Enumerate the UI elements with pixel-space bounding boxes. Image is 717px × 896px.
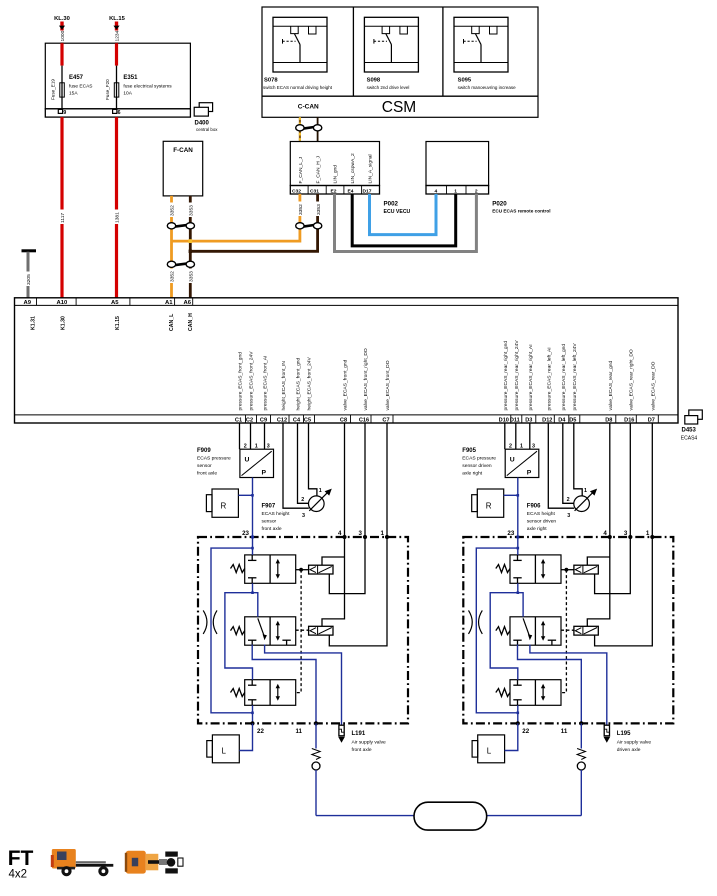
wire ECU pin to height sensor F906 pin 2 [563,423,574,503]
junction orange F-CAN low [188,239,192,243]
truck icon side view [51,849,114,876]
svg-text:E457: E457 [69,75,84,81]
svg-text:P: P [527,470,532,477]
wire ECU pin to height sensor F907 pin 1 [309,423,317,496]
junction brown F-CAN high [189,250,192,253]
wire ECU pin to pressure sensor F905 pin 2 [504,423,506,449]
svg-text:22: 22 [522,728,529,735]
svg-text:D12: D12 [542,417,552,423]
svg-text:C7: C7 [382,417,389,423]
svg-text:1117: 1117 [60,213,66,223]
wire pin 1 to solenoid Y2 low side [595,537,653,646]
wire 3352 (orange F-CAN low, F-CAN box down to ECU A1) [168,196,175,298]
wire 3205 (ground to ECU A9) [25,252,32,298]
svg-text:2: 2 [509,443,512,449]
dashed link valve V2 to solenoid Y2 [561,629,574,631]
svg-text:A10: A10 [57,300,69,306]
wire red inside fuse box to fuse E351 [115,43,118,83]
wire sensor F905 to R and valve pin 23 (blue) [504,478,519,538]
ECU pin C8 (valve_ECAS_front_gnd) [340,359,351,423]
svg-text:valve_ECAS_rear_DO: valve_ECAS_rear_DO [651,361,657,410]
blue wire pin 22 to L box [239,723,252,750]
svg-text:CAN_L: CAN_L [169,313,175,331]
spring of valve V3 [231,689,245,697]
svg-text:F909: F909 [197,448,211,454]
pressure sensor F909 (U/P box) [240,449,274,477]
svg-text:22: 22 [257,728,264,735]
blue wire valve V3 to pin 22 [517,705,520,723]
wire ECU pin to pressure sensor F909 pin 2 [239,423,241,449]
pilot valve V1 (top, pneumatic 2/2) [510,555,561,583]
ECU pin A1 [165,300,175,331]
wire 1000 (KL.30 red feed into fuse box) [59,22,66,44]
svg-text:E4: E4 [348,188,354,194]
valve block pin labels 23 4 3 1 [507,530,649,537]
ECU P020 (ECAS remote control) box [426,142,489,195]
main valve V2 (middle, 3/2 way) [510,617,561,645]
blue wire valve V3 to pin 22 [251,705,254,723]
wire LIN_A_signal (blue U, P002 D17 to P020 pin4) [370,194,437,235]
spring of valve V3 [496,689,510,697]
svg-text:switch manoeuvring increase: switch manoeuvring increase [458,85,517,90]
svg-text:pressure_ECAS_rear_left_gnd: pressure_ECAS_rear_left_gnd [561,344,567,411]
svg-text:6: 6 [118,110,121,116]
svg-text:D8: D8 [605,417,612,423]
svg-text:Fuse_F20: Fuse_F20 [105,79,110,100]
pin D9 of fuse box [58,109,66,115]
wire sensor F909 to R and valve pin 23 (blue) [238,478,253,538]
svg-text:D3: D3 [525,417,532,423]
pilot dashed line (vertical) [296,570,301,693]
fuse E457 symbol [60,83,65,109]
wire ECU to valve block pin 3 [364,423,366,537]
svg-text:height_ECAS_front_gnd: height_ECAS_front_gnd [296,357,302,410]
main valve V2 (middle, 3/2 way) [245,617,296,645]
wire red inside fuse box to fuse E457 [60,43,63,83]
svg-text:23: 23 [242,530,249,537]
svg-text:10A: 10A [123,91,132,97]
svg-text:E2: E2 [331,188,337,194]
svg-text:F907: F907 [262,504,276,510]
ECU ECAS main box [15,298,679,423]
P002 signal name LIN_A_signal [368,154,374,183]
svg-text:11: 11 [561,728,568,735]
switch S095 (manoeuvring increase) [454,17,516,90]
height sensor F906 (circle with arrow) [574,489,597,512]
svg-text:F-CAN: F-CAN [173,147,193,154]
ECU pin D8 (valve_ECAS_rear_gnd) [605,360,616,423]
pressure sensor F905 (U/P box) [505,449,539,477]
label L191 [352,731,387,753]
svg-text:central box: central box [196,127,218,132]
svg-text:A6: A6 [184,300,192,306]
junction dots pins 22 and 11 [516,721,584,725]
twisted pair symbol (C-CAN at CSM) [296,125,322,131]
svg-text:C1: C1 [235,417,242,423]
wire ECU pin to pressure sensor F905 pin 1 [515,423,517,449]
wire 1117 (red, fuse D9 to ECU A10) [59,117,66,298]
svg-text:valve_ECAS_front_gnd: valve_ECAS_front_gnd [343,359,349,410]
legend FT 4x2 [8,847,34,881]
wire pin 3 to solenoid Y1 low side [329,537,365,594]
svg-text:1234: 1234 [115,30,121,41]
ECU pin C16 (valve_ECAS_front_right_DO) [359,348,371,423]
D400 central box connector icon [194,103,218,132]
svg-text:CAN_H: CAN_H [188,313,194,331]
svg-text:4x2: 4x2 [9,869,28,881]
svg-text:Air supply valve: Air supply valve [352,740,387,746]
svg-text:F_CAN_L_J: F_CAN_L_J [298,156,304,183]
svg-text:3: 3 [267,443,270,449]
svg-text:pressure_ECAS_rear_right_AI: pressure_ECAS_rear_right_AI [528,344,534,410]
ECU pin C7 (valve_ECAS_front_DO) [382,360,393,423]
svg-text:LIN_A_signal: LIN_A_signal [368,154,374,183]
ECU pin A6 [184,300,195,331]
svg-text:3353: 3353 [189,271,195,282]
pin numbers of F905 [509,443,535,449]
svg-text:2: 2 [567,497,570,503]
wire ECU pin to height sensor F906 pin 1 [574,423,582,496]
twisted pair symbol (below P002) [296,223,322,229]
svg-text:axle right: axle right [527,526,547,532]
net C-CAN label [298,104,319,111]
spring of valve V1 [496,565,510,573]
ECU pin C12 (height_ECAS_front_IN) [277,361,289,424]
label F907 [262,504,291,533]
svg-text:ECAS4: ECAS4 [681,436,698,442]
ECU pin D10 (pressure_ECAS_rear_right_gnd) [499,341,511,424]
svg-text:sensor: sensor [262,519,277,525]
svg-text:C2: C2 [246,417,253,423]
wire 3352 branch (orange from P002 C32) [172,194,305,241]
P002 signal name LIN_cspwA_2 [350,153,356,183]
svg-text:L191: L191 [352,731,366,737]
svg-text:sensor driven: sensor driven [527,519,557,525]
solenoid Y2 of valve V2 [309,626,333,635]
ECU pin A9 [24,300,37,330]
svg-text:pressure_ECAS_front_AI: pressure_ECAS_front_AI [263,356,269,411]
svg-text:C12: C12 [277,417,287,423]
D453 ECAS4 connector icon [681,410,703,442]
blue wire pin 22 to L box [505,723,518,750]
blue wire valve V1 to valve V2 [251,583,258,617]
height sensor F907 (circle with arrow) [309,489,332,512]
label F909 [197,448,231,477]
svg-text:2: 2 [244,443,247,449]
fuse E457 labels [50,75,92,100]
resistor box R (driven axle) [472,489,504,517]
wire ECU pin to pressure sensor F909 pin 1 [250,423,252,449]
lift axle box L (driven axle) [472,735,505,763]
wire LIN supply (black U, P002 E4 to P020 pin1) [352,194,456,246]
wire 3353 branch (brown from P002 C31) [190,194,321,251]
svg-text:3: 3 [302,513,305,519]
P002 reference label [384,201,411,216]
spring of valve V1 [231,565,245,573]
ECU pin C5 (height_ECAS_front_24V) [304,356,315,423]
wire pin 3 to solenoid Y1 low side [595,537,631,594]
svg-text:sensor: sensor [197,463,212,469]
wire pin 4 to solenoid Y1/Y2 high side [587,537,610,626]
wire 1234 (KL.15 red feed into fuse box) [113,22,120,44]
svg-text:D17: D17 [363,188,372,194]
dashed link valve V2 to solenoid Y2 [296,629,309,631]
pin D6 of fuse box [113,109,121,115]
wire 1381 (red, fuse D6 to ECU A5) [113,117,120,298]
svg-text:E351: E351 [123,75,138,81]
svg-text:U: U [510,457,515,464]
svg-text:switch 2nd drive level: switch 2nd drive level [367,85,410,90]
svg-text:ECAS pressure: ECAS pressure [462,456,496,462]
svg-text:D400: D400 [195,121,210,127]
svg-text:9: 9 [63,110,66,116]
svg-text:C4: C4 [293,417,301,423]
svg-text:1: 1 [584,488,587,494]
wire ECU to valve block pin 1 [386,423,388,537]
svg-text:valve_ECAS_rear_right_DO: valve_ECAS_rear_right_DO [629,349,635,410]
svg-text:3205: 3205 [26,274,32,285]
svg-text:K1.15: K1.15 [115,316,121,330]
P002 pin C31 label [310,188,319,194]
fuse E351 labels [105,75,172,100]
svg-text:KL.30: KL.30 [54,16,70,22]
blue wire left bypass loop [211,548,253,713]
svg-text:3: 3 [532,443,535,449]
ECU pin C1 (pressure_ECAS_front_gnd) [235,352,246,424]
svg-text:ECAS pressure: ECAS pressure [197,456,231,462]
F-CAN node box [163,141,203,196]
blue wire valve V2 to air supply valve [530,645,607,726]
ECU pin D3 (pressure_ECAS_rear_right_AI) [525,344,536,423]
wire ECU pin to height sensor F906 pin 3 [548,423,574,508]
solenoid Y2 of valve V2 [574,626,598,635]
P002 pin E2 label [331,188,337,194]
valve block assembly (driven axle) dash-dot border [463,537,673,723]
svg-text:fuse electrical systems: fuse electrical systems [123,84,172,90]
solenoid Y1 of valve V1 [574,565,598,574]
svg-text:4: 4 [435,188,438,194]
valve block pin labels 22 and 11 [257,728,303,735]
svg-text:1: 1 [381,530,385,537]
svg-text:2: 2 [475,188,478,194]
svg-text:front axle: front axle [197,471,217,477]
svg-text:R: R [221,502,227,511]
svg-text:CSM: CSM [382,99,416,116]
svg-text:1381: 1381 [115,212,121,223]
fuse box (central electric unit) outline [45,43,190,117]
valve V3 (bottom, pneumatic 2/2) [510,680,561,706]
svg-text:height_ECAS_front_24V: height_ECAS_front_24V [307,356,313,410]
P002 pin C32 label [292,188,301,194]
svg-text:valve_ECAS_front_right_DO: valve_ECAS_front_right_DO [363,348,369,410]
blue wire mid loop to valve V3 [225,593,253,680]
svg-text:D10: D10 [499,417,509,423]
ECU P002 (VECU) box [290,142,379,195]
svg-text:C31: C31 [310,188,319,194]
twisted pair symbol (F-CAN upper) [167,223,194,229]
wire C-CAN low (orange) CSM to P002 [299,117,301,141]
ECU pin C4 (height_ECAS_front_gnd) [293,357,304,423]
svg-text:4: 4 [338,530,342,537]
svg-text:pressure_ECAS_front_24V: pressure_ECAS_front_24V [249,351,255,411]
wire ECU pin to height sensor F907 pin 2 [298,423,309,503]
svg-text:2: 2 [301,497,304,503]
svg-text:C5: C5 [304,417,311,423]
ECU pin D4 (pressure_ECAS_rear_left_gnd) [558,344,569,424]
wire ECU to valve block pin 4 [609,423,611,537]
lift axle box L (front axle) [207,735,239,763]
wire pin 1 to solenoid Y2 low side [329,537,387,646]
svg-text:F905: F905 [462,448,476,454]
svg-text:3: 3 [624,530,628,537]
svg-text:C8: C8 [340,417,347,423]
P020 pin 4 label [435,188,438,194]
ECU pin A5 [111,300,121,330]
ECU pin D5 (pressure_ECAS_rear_left_24V) [569,343,580,424]
svg-text:valve_ECAS_front_DO: valve_ECAS_front_DO [385,360,391,410]
blue pipe driven axle to air tank [487,815,582,817]
svg-text:C9: C9 [260,417,267,423]
svg-text:KL.15: KL.15 [109,16,126,22]
throttle symbol )( [469,610,483,634]
switch S098 (2nd drive level) [364,17,418,90]
node KL.15 supply label [109,16,126,22]
svg-text:ECAS height: ECAS height [527,511,556,517]
svg-text:pressure_ECAS_rear_right_gnd: pressure_ECAS_rear_right_gnd [503,341,509,411]
svg-text:pressure_ECAS_rear_left_24V: pressure_ECAS_rear_left_24V [572,343,578,411]
CSM title [382,99,416,116]
svg-text:L: L [487,747,492,756]
svg-text:driven axle: driven axle [617,747,641,753]
ground symbol (chassis) [22,249,37,252]
ECU pin D7 (valve_ECAS_rear_DO) [648,361,659,423]
blue wire valve V2 to air supply valve [265,645,342,726]
P020 pin 2 label [475,188,478,194]
twisted pair symbol (F-CAN lower) [167,261,194,267]
svg-text:1: 1 [520,443,523,449]
label L195 [617,731,652,753]
svg-text:K1.31: K1.31 [31,316,37,330]
fuse E351 symbol [114,83,119,109]
node KL.30 supply label [54,16,70,22]
svg-text:A5: A5 [111,300,119,306]
svg-text:S095: S095 [458,78,472,84]
throttle symbol )( [203,610,217,634]
P002 signal name F_CAN_L_J [298,156,304,183]
label F906 [527,504,557,533]
P020 reference label [492,201,550,214]
solenoid Y1 of valve V1 [309,565,333,574]
svg-text:front axle: front axle [262,526,282,532]
spring of valve V2 [496,627,510,635]
svg-text:LIN_cspwA_2: LIN_cspwA_2 [350,153,356,183]
switch S078 (ECAS normal driving height) [263,17,333,90]
svg-text:R: R [486,502,492,511]
pin numbers of F909 [244,443,270,449]
svg-text:1000: 1000 [60,30,66,41]
blue wire valve V2 to pin 11 [252,645,316,724]
svg-text:F906: F906 [527,504,541,510]
svg-text:ECU VECU: ECU VECU [384,209,411,215]
svg-text:A9: A9 [24,300,32,306]
svg-text:F_CAN_H_J: F_CAN_H_J [316,155,322,183]
blue wire mid loop to valve V3 [490,593,518,680]
svg-text:1: 1 [319,488,322,494]
air supply valve L195 symbol [604,725,611,743]
pilot valve V1 (top, pneumatic 2/2) [245,555,296,583]
blue wire valve V1 to valve V2 [517,583,524,617]
blue wire pin 23 into valve V1 [251,537,254,555]
ECU pin D12 (pressure_ECAS_rear_left_AI) [542,347,554,423]
ECU pin D11 (pressure_ECAS_rear_right_24V) [510,340,522,424]
svg-text:3353: 3353 [316,204,322,215]
svg-text:S078: S078 [264,78,278,84]
check valve / restrictor below pin 11 (front axle) [312,723,320,815]
svg-text:pressure_ECAS_front_gnd: pressure_ECAS_front_gnd [238,352,244,411]
svg-text:K1.30: K1.30 [61,316,67,330]
resistor box R (front axle) [206,489,238,517]
wire ECU pin to pressure sensor F909 pin 3 [264,423,266,449]
wire ECU to valve block pin 4 [344,423,346,537]
svg-text:4: 4 [603,530,607,537]
ECU pin D16 (valve_ECAS_rear_right_DO) [624,349,636,423]
wire 3353 (brown F-CAN high, F-CAN box down to ECU A6) [187,196,194,298]
svg-text:height_ECAS_front_IN: height_ECAS_front_IN [281,361,287,411]
label F905 [462,448,496,477]
svg-text:D453: D453 [682,428,697,434]
P002 pin D17 label [363,188,372,194]
svg-text:D5: D5 [569,417,576,423]
svg-text:fuse ECAS: fuse ECAS [69,84,92,90]
blue wire pin 23 into valve V1 [517,537,520,555]
svg-text:axle right: axle right [462,471,482,477]
link valve V1 to solenoid Y1 with junction [561,568,574,572]
blue wire valve V2 to pin 11 [518,645,582,724]
ECU pin C2 (pressure_ECAS_front_24V) [246,351,257,424]
link valve V1 to solenoid Y1 with junction [296,568,309,572]
svg-text:C32: C32 [292,188,301,194]
svg-text:front axle: front axle [352,747,372,753]
CSM module outer box [262,7,538,117]
svg-text:P002: P002 [384,201,399,208]
svg-text:D4: D4 [558,417,566,423]
svg-text:D7: D7 [648,417,655,423]
valve block pin labels 22 and 11 [522,728,568,735]
svg-text:ECU ECAS remote control: ECU ECAS remote control [492,209,550,214]
pin numbers of F906 [567,488,587,519]
svg-text:ECAS height: ECAS height [262,511,291,517]
ECU top pin ticks [37,298,193,306]
blue wire left bypass loop [476,548,518,713]
svg-text:1: 1 [646,530,650,537]
svg-text:3: 3 [359,530,363,537]
svg-text:11: 11 [295,728,302,735]
svg-text:Fuse_E19: Fuse_E19 [50,79,55,100]
ECU pin A10 [57,300,69,330]
wire LIN_gnd (grey U, P002 E2 to P020 pin2) [335,194,477,252]
svg-text:sensor driven: sensor driven [462,463,492,469]
svg-text:1: 1 [255,443,258,449]
ECU pin C9 (pressure_ECAS_front_AI) [260,356,271,424]
svg-text:23: 23 [507,530,514,537]
pilot dashed line (vertical) [561,570,566,693]
svg-text:P020: P020 [492,201,507,208]
wire pin 4 to solenoid Y1/Y2 high side [322,537,345,626]
svg-text:D11: D11 [510,417,520,423]
junction dots pins 22 and 11 [250,721,318,725]
svg-text:C16: C16 [359,417,369,423]
svg-text:pressure_ECAS_rear_left_AI: pressure_ECAS_rear_left_AI [547,347,553,410]
